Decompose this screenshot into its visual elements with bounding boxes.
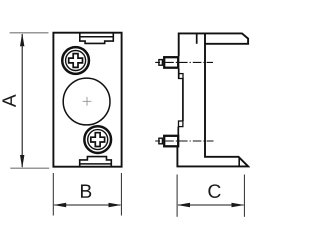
dimension line C bbox=[177, 203, 244, 207]
label A bbox=[2, 94, 15, 107]
label C bbox=[208, 184, 220, 198]
centerline screw 2 bbox=[155, 140, 213, 142]
side view outline bbox=[177, 33, 248, 166]
extension line B left bbox=[52, 173, 54, 216]
screw S2 inner circle bbox=[88, 130, 108, 150]
dimension line A bbox=[20, 33, 24, 168]
bottom arm chamfer vertical bbox=[238, 157, 240, 166]
screw S2 outer ring bbox=[84, 126, 111, 153]
label B bbox=[81, 185, 91, 198]
detent square D2 bbox=[179, 121, 183, 127]
screw boss T2 bbox=[164, 136, 178, 147]
side view spine left edge lower segment bbox=[177, 127, 179, 135]
large bore circle bbox=[63, 78, 110, 125]
side view spine left edge upper-mid segment bbox=[178, 69, 180, 79]
bottom pedestal bbox=[80, 157, 112, 167]
screw boss T1 bbox=[164, 57, 178, 67]
extension line B right bbox=[120, 173, 122, 216]
front view body outline bbox=[53, 33, 121, 167]
extension line A bottom bbox=[10, 167, 49, 169]
screw S2 phillips cross bbox=[91, 133, 105, 147]
side view top arm inner edge bbox=[196, 33, 198, 43]
dimension line B bbox=[53, 203, 121, 207]
screw S1 phillips cross bbox=[69, 54, 83, 68]
screw head H2 bbox=[159, 138, 163, 144]
large bore center cross bbox=[83, 97, 92, 106]
detent square D1 bbox=[179, 74, 183, 79]
side view spine left edge mid segment bbox=[182, 78, 184, 121]
extension line C right bbox=[243, 175, 245, 217]
top groove recess bbox=[80, 33, 114, 43]
screw head H1 bbox=[159, 60, 163, 66]
extension line C left bbox=[176, 175, 178, 217]
extension line A top bbox=[10, 32, 49, 34]
centerline screw 1 bbox=[155, 61, 213, 63]
screw S1 inner circle bbox=[66, 51, 86, 71]
bottom pedestal midline bbox=[80, 163, 112, 165]
top groove midline bbox=[80, 36, 114, 38]
screw S1 outer ring bbox=[62, 47, 89, 74]
